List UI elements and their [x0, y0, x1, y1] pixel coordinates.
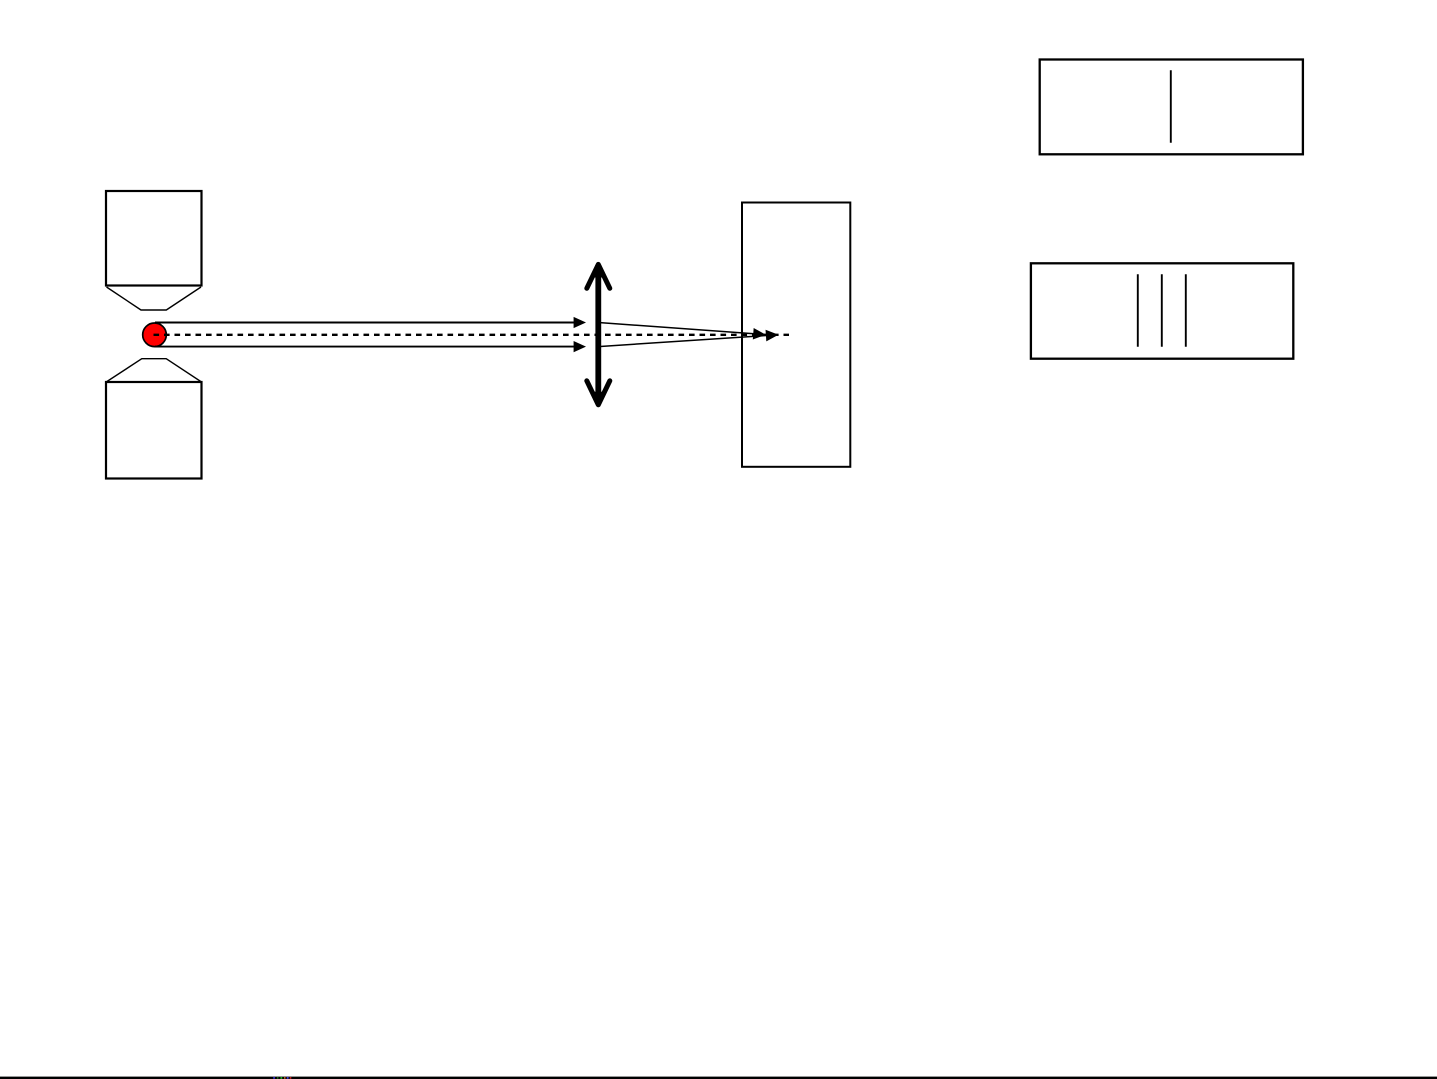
lens arrowhead bottom apex fill — [591, 392, 605, 407]
lower electrode nozzle — [106, 359, 201, 382]
arrowhead focus 2 — [766, 329, 779, 341]
lens arrowhead top apex fill — [591, 263, 605, 278]
arrowhead ray lower — [574, 341, 586, 352]
lens arrowhead top — [587, 264, 610, 288]
triple-line result panel — [1031, 263, 1293, 358]
converging ray upper (lens to focus) — [598, 323, 754, 334]
single-slit result panel — [1040, 60, 1303, 155]
bottom black bar — [0, 1077, 1437, 1079]
upper electrode body — [106, 191, 202, 286]
spectral line 1 — [1137, 274, 1139, 347]
lower electrode body — [106, 382, 202, 479]
bottom bar colored specks — [273, 1077, 291, 1079]
single spectral line — [1170, 70, 1172, 143]
arrowhead focus 1 — [753, 328, 766, 340]
spectral line 2 — [1161, 274, 1163, 347]
atom (red ion source) — [143, 323, 167, 347]
dashed optical axis — [154, 334, 790, 336]
lens shaft (double-headed arrow) — [595, 265, 601, 404]
arrowhead ray upper — [574, 317, 586, 328]
ray lower (source to lens) — [155, 346, 575, 348]
spectral line 3 — [1185, 274, 1187, 347]
screen — [742, 203, 850, 467]
converging ray lower (lens to focus) — [598, 336, 766, 347]
ray upper (source to lens) — [155, 322, 575, 324]
lens arrowhead bottom — [587, 381, 610, 405]
upper electrode nozzle — [107, 287, 202, 310]
